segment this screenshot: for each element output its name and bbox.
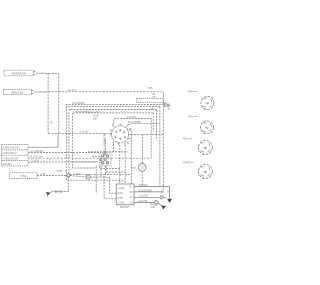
svg-text:A PTO SW GY: A PTO SW GY — [3, 152, 18, 155]
reverse safety switch S1 — [4, 70, 45, 76]
wire branch from S1 line down — [47, 73, 49, 133]
svg-text:FUSE: FUSE — [20, 176, 26, 178]
wire into solenoid — [141, 134, 143, 186]
svg-text:C 1.0 GY: C 1.0 GY — [31, 160, 40, 162]
svg-text:B RD: B RD — [117, 193, 123, 195]
ground label — [150, 204, 158, 210]
relay K1 — [100, 153, 111, 166]
svg-text:BATTERY: BATTERY — [120, 206, 130, 209]
svg-text:20A: 20A — [93, 117, 97, 120]
svg-text:3D: 3D — [130, 202, 133, 204]
svg-text:FRAME: FRAME — [150, 204, 158, 207]
accessory connector strip — [137, 99, 164, 103]
wire S2 long run to right side — [48, 92, 163, 192]
ground chassis G3 — [46, 192, 52, 198]
svg-text:1-1.0 GN: 1-1.0 GN — [80, 132, 89, 134]
wire with vertical label to relay — [105, 139, 107, 174]
svg-text:B 1.0 YL/WH: B 1.0 YL/WH — [31, 157, 44, 159]
wire A-1.0 RD/WH top — [66, 103, 164, 105]
svg-text:A SEAT SW GY/Y: A SEAT SW GY/Y — [3, 147, 21, 150]
key position diagram OFF — [188, 91, 214, 109]
svg-text:− D BK: − D BK — [117, 203, 124, 205]
svg-text:B-1.0 RD/WH: B-1.0 RD/WH — [139, 190, 152, 192]
indicator lamp DS1 — [70, 175, 109, 179]
wire S1 to ignition switch — [45, 73, 59, 133]
tick marks on ground wires — [162, 190, 168, 193]
svg-text:B-1.0 RD/WH: B-1.0 RD/WH — [128, 122, 141, 124]
svg-text:RUN: RUN — [188, 117, 193, 119]
ground chassis G1 — [167, 199, 172, 203]
svg-text:A-1.0 RD: A-1.0 RD — [127, 116, 136, 119]
svg-text:REVERSE SW: REVERSE SW — [11, 73, 26, 75]
brake safety switch S2 — [4, 89, 48, 94]
svg-text:A-BK: A-BK — [40, 173, 46, 176]
svg-text:D-6.0 BK: D-6.0 BK — [139, 201, 148, 203]
svg-text:1-BN: 1-BN — [76, 174, 81, 176]
svg-text:B-1.0 RD/WH BK: B-1.0 RD/WH BK — [102, 133, 106, 152]
battery label — [120, 206, 130, 209]
wire fuse to bullet junction — [37, 175, 67, 177]
key position diagram RUN — [188, 117, 214, 134]
svg-text:C-1.0 RD: C-1.0 RD — [139, 196, 148, 198]
svg-text:PTO: PTO — [131, 168, 136, 170]
connector block text rows top-left of harness — [76, 110, 100, 120]
connector bullet junction — [67, 174, 70, 177]
battery wire 3 — [134, 196, 166, 198]
svg-text:FUSE: FUSE — [93, 116, 99, 118]
svg-text:B-1.0 YL: B-1.0 YL — [68, 90, 77, 92]
svg-text:BRAKE SW: BRAKE SW — [12, 91, 24, 94]
svg-text:3C: 3C — [130, 197, 133, 199]
svg-text:C RD: C RD — [117, 198, 123, 200]
key position diagram RUN2 — [183, 138, 212, 154]
wire J1 row2 — [28, 152, 100, 154]
ground G1 vertical — [169, 186, 171, 198]
fuse / connector rows bus wires in harness — [88, 151, 128, 153]
wire bullet down to ground run — [52, 177, 69, 192]
svg-text:3 B: 3 B — [152, 97, 156, 99]
ground frame G2 — [161, 205, 166, 209]
svg-text:GND: GND — [150, 207, 155, 209]
svg-text:+ A RD: + A RD — [117, 187, 124, 190]
harness outline inner — [72, 113, 153, 168]
wire bullet to frame ground — [158, 203, 163, 206]
battery wire 4 — [134, 201, 155, 203]
left connector block J1 — [2, 145, 29, 167]
battery BT1 — [116, 184, 134, 205]
wire J1 row3 — [28, 157, 151, 159]
wire J1 row4 — [28, 161, 96, 163]
svg-text:A-1.0 RD/WH: A-1.0 RD/WH — [72, 102, 85, 105]
svg-text:GND BK: GND BK — [3, 164, 12, 166]
starter solenoid contact circle — [138, 164, 146, 172]
battery negative bullet — [155, 201, 158, 204]
svg-text:A-6.0 RD: A-6.0 RD — [139, 184, 148, 187]
ignition switch pin wire up-right — [114, 119, 151, 159]
bus wires into relay — [75, 156, 100, 162]
harness outline middle — [69, 110, 157, 199]
svg-text:36 B: 36 B — [148, 88, 153, 90]
inline connector on ground wire — [56, 190, 62, 193]
ignition switch U1 — [109, 124, 131, 145]
svg-text:MAIN HARNESS CONN: MAIN HARNESS CONN — [76, 110, 100, 113]
svg-text:RD: RD — [52, 120, 54, 124]
accessory connector P2 — [165, 102, 172, 111]
svg-text:W-BN: W-BN — [57, 171, 63, 173]
svg-text:C REV/LMT SW: C REV/LMT SW — [3, 158, 19, 160]
svg-text:S-RD: S-RD — [127, 129, 133, 131]
wire lamp to battery — [109, 177, 116, 193]
fuse holder F1 — [10, 173, 37, 179]
svg-text:OFF: OFF — [188, 91, 193, 93]
svg-text:START: START — [183, 161, 191, 164]
ignition switch right short wire — [129, 130, 132, 184]
ignition switch right wire B — [128, 123, 159, 126]
ignition switch bottom drop wires — [114, 144, 126, 184]
battery wire 2 — [134, 191, 163, 193]
harness outline outer — [66, 107, 160, 187]
wire J1 row1 — [28, 134, 58, 147]
battery wire 1 — [134, 185, 170, 187]
wire relay drops — [96, 166, 101, 193]
svg-text:A 1.0 RD/WH: A 1.0 RD/WH — [31, 150, 44, 153]
ignition switch right wire at 134 — [131, 133, 163, 135]
svg-text:RUN: RUN — [183, 138, 188, 140]
wire to ignition switch left — [48, 132, 112, 134]
wire relay to battery staircase — [100, 166, 132, 175]
key position diagram START — [183, 161, 212, 178]
